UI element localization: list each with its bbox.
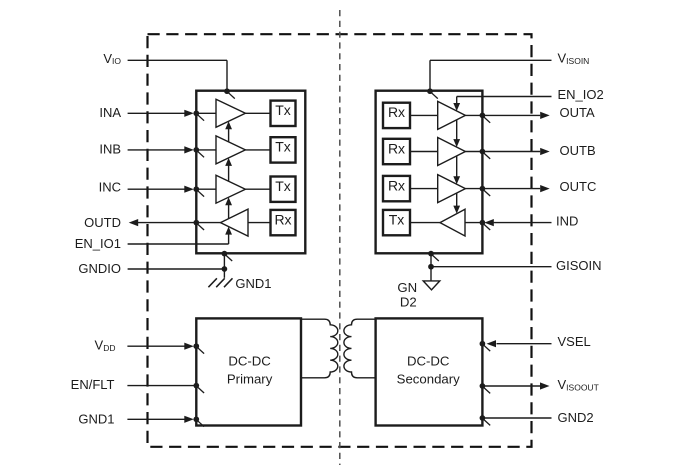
svg-text:GND2: GND2 [558,410,594,425]
svg-text:Tx: Tx [275,102,291,118]
svg-text:IND: IND [556,213,578,228]
svg-text:Rx: Rx [274,211,291,227]
svg-text:Tx: Tx [389,211,405,227]
svg-text:GISOIN: GISOIN [556,258,602,273]
svg-text:GND1: GND1 [235,276,271,291]
svg-text:Secondary: Secondary [397,372,460,387]
svg-text:INC: INC [99,179,121,194]
svg-text:EN_IO1: EN_IO1 [75,236,121,251]
svg-text:DC-DC: DC-DC [407,353,450,368]
svg-text:GND1: GND1 [78,411,114,426]
svg-text:VSEL: VSEL [558,334,591,349]
svg-text:Rx: Rx [388,104,405,120]
svg-text:OUTA: OUTA [560,105,595,120]
svg-text:EN/FLT: EN/FLT [71,377,115,392]
svg-text:EN_IO2: EN_IO2 [558,87,604,102]
svg-text:DC-DC: DC-DC [228,353,271,368]
svg-text:OUTC: OUTC [560,179,597,194]
svg-text:GNDIO: GNDIO [78,261,121,276]
svg-text:Rx: Rx [388,140,405,156]
svg-text:Primary: Primary [227,372,273,387]
svg-text:OUTD: OUTD [84,215,121,230]
svg-text:Rx: Rx [388,177,405,193]
svg-text:D2: D2 [400,294,417,309]
svg-text:GN: GN [397,280,417,295]
svg-text:INA: INA [99,105,121,120]
svg-text:INB: INB [99,141,121,156]
svg-text:Tx: Tx [275,178,291,194]
svg-text:OUTB: OUTB [560,143,596,158]
svg-text:Tx: Tx [275,139,291,155]
